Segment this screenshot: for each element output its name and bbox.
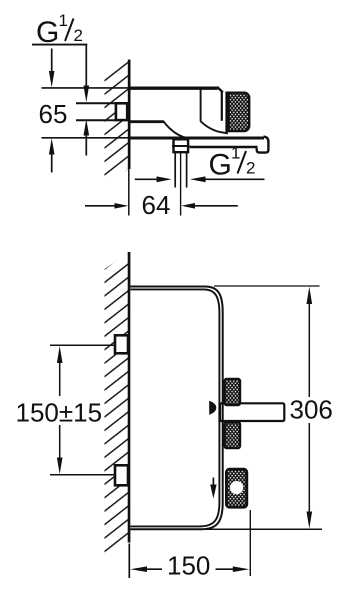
spout right end and aerator outline: [257, 137, 269, 153]
dimension 150±15: top arrow: [57, 346, 63, 396]
knurled tab lower (front view): [225, 422, 240, 448]
dimension 150±15: bottom arrow: [57, 425, 63, 474]
knurled tab upper (front view): [225, 379, 240, 405]
dimension 306: top extension line: [214, 285, 320, 287]
dimension 65: bottom arrow: [49, 138, 55, 172]
thermostat inner outline: [130, 289, 219, 526]
dimension 64: right arrow: [181, 203, 238, 209]
dimension 150: left extension line: [128, 544, 130, 579]
shower hose outlet block: [226, 469, 246, 507]
dimension 150: right arrow: [216, 566, 250, 572]
svg-text:64: 64: [142, 190, 171, 220]
svg-text:65: 65: [39, 99, 68, 129]
leader arrow left (points right at collar): [135, 176, 172, 182]
label G 1/2 (top-left): [32, 11, 87, 90]
mounting tab lower: [115, 465, 128, 485]
faucet body top edge (thick): [129, 86, 218, 89]
thermostat outer outline: [130, 287, 222, 530]
dimension 306: top arrow: [307, 287, 313, 397]
spout bottom edge: [190, 146, 258, 148]
svg-text:150±15: 150±15: [16, 398, 103, 428]
dimension 150: left arrow: [130, 566, 162, 572]
spout pipe (front view): [220, 403, 284, 421]
wall hatch (top view): [105, 60, 129, 185]
wall hatch (front view): [105, 253, 129, 559]
supply connection square behind wall: [116, 103, 127, 120]
dimension 150±15: top extension line: [50, 344, 115, 346]
dimension 64: wall extension line: [128, 169, 130, 216]
spout rear curve left: [163, 121, 188, 139]
dimension 65: top arrow: [49, 49, 55, 88]
dimension 64: center extension line: [180, 153, 182, 216]
dimension 65: extension line top (body top): [42, 87, 129, 89]
svg-text:150: 150: [167, 551, 210, 581]
svg-text:306: 306: [290, 395, 333, 425]
body bottom edge (thick): [129, 120, 164, 123]
extension line pipe top: [76, 102, 115, 104]
svg-text:G: G: [209, 149, 232, 182]
dimension 306: bottom extension line: [199, 528, 322, 530]
spout top edge (thick): [129, 137, 265, 140]
shower outlet collar: [174, 139, 189, 152]
dimension 150: right extension line: [249, 510, 251, 576]
arrow G1/2 lower (points up at pipe bottom): [84, 119, 90, 156]
label G 1/2 (spout outlet): [209, 144, 256, 182]
svg-text:2: 2: [74, 26, 83, 45]
spout rear curve right: [201, 121, 228, 133]
mounting tab upper: [115, 335, 128, 353]
body divider vertical: [200, 89, 202, 122]
body edge lines over pipe: [218, 402, 220, 423]
body top-right chamfer: [217, 87, 223, 92]
dimension 150±15: bottom extension line: [50, 474, 115, 476]
dimension 65: extension line bottom (spout top): [42, 137, 129, 139]
flow arrow marking: [210, 478, 216, 499]
outlet stem right line: [186, 152, 188, 187]
D-shaped button: [209, 401, 216, 415]
outlet stem left line: [174, 152, 176, 187]
svg-text:2: 2: [246, 159, 255, 178]
leader arrow right (points left at collar): [190, 176, 265, 182]
svg-text:1: 1: [231, 144, 240, 163]
wall face edge line (front view): [128, 252, 131, 543]
svg-text:1: 1: [59, 11, 68, 30]
collar divider: [172, 145, 190, 147]
body neck vertical: [221, 92, 223, 121]
wall face edge line (top view): [128, 60, 131, 170]
hose outlet circle: [230, 481, 243, 494]
extension line pipe bottom: [76, 119, 115, 121]
arrow G1/2 upper (points down at pipe top): [84, 86, 90, 103]
knurled knob (top view): [227, 93, 250, 131]
dimension 64: left arrow: [85, 203, 128, 209]
dimension 306: bottom arrow: [307, 423, 313, 529]
